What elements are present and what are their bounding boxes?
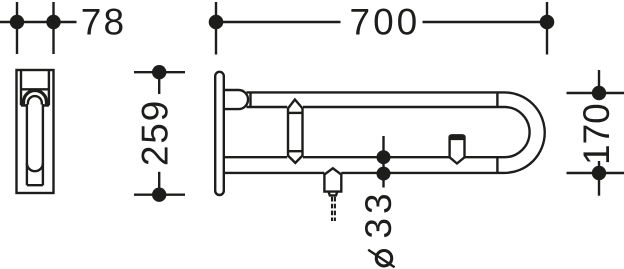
side view hinge cover shoulder right <box>43 104 49 106</box>
svg-text:170: 170 <box>576 103 617 165</box>
front view U-bend joint lower <box>496 157 498 173</box>
dimension 170 line <box>567 70 624 196</box>
front view hinge lock inner bottom line <box>288 150 303 152</box>
side view outer plate <box>17 70 54 193</box>
front view upper mount capsule <box>224 90 248 109</box>
side view folded tube bottom line <box>27 184 43 186</box>
front view upper tube bottom line <box>247 106 505 108</box>
front view upper tube joint <box>249 92 251 107</box>
side view hinge outer arc <box>24 91 47 106</box>
front view pin fitting cap <box>448 134 465 140</box>
front view wall plate <box>215 72 224 195</box>
dimension diameter 33 leader <box>377 136 391 188</box>
side view hinge inner arc <box>28 96 42 104</box>
svg-text:700: 700 <box>350 2 421 43</box>
side view face plate right edge <box>48 70 50 105</box>
front view upper tube top line <box>247 91 505 93</box>
side view folded tube sides <box>27 104 43 185</box>
dimension 700 line <box>209 2 555 55</box>
dimension 259 line <box>134 65 185 202</box>
svg-text:78: 78 <box>81 2 127 43</box>
front view release knob nub <box>329 192 338 196</box>
front view hinge lock inner top line <box>288 112 303 114</box>
front view pin fitting <box>450 136 465 164</box>
front view hinge lock body <box>288 100 303 163</box>
side view hinge cover top line <box>21 88 49 90</box>
dimension 78 line <box>0 2 77 54</box>
front view U-bend outer arc <box>505 92 545 172</box>
front view lower tube bottom line <box>224 172 505 174</box>
front view release knob dashed pull <box>332 197 335 221</box>
front view lower tube top line <box>224 156 505 158</box>
svg-text:259: 259 <box>134 99 175 166</box>
svg-text:33: 33 <box>358 189 399 238</box>
side view folded tube bottom cap <box>27 163 43 171</box>
front view release knob <box>324 168 341 191</box>
front view U-bend joint upper <box>496 92 498 107</box>
side view face plate left edge <box>20 70 22 105</box>
diameter symbol <box>368 250 394 267</box>
side view hinge cover shoulder left <box>21 104 27 106</box>
front view U-bend inner arc <box>505 107 530 157</box>
